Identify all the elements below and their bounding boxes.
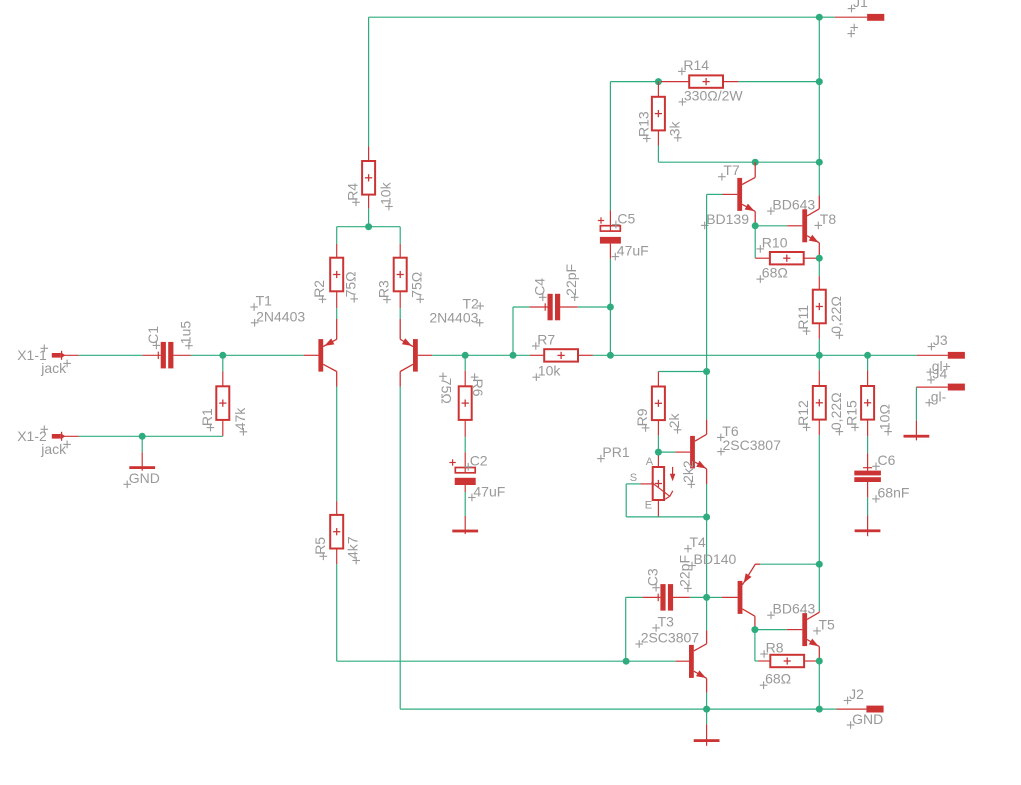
transistor T1 collector <box>323 364 337 371</box>
transistor T2 base pin <box>418 354 432 356</box>
resistor R15 <box>861 386 874 420</box>
svg-text:T5: T5 <box>819 616 836 632</box>
svg-text:C6: C6 <box>878 452 896 468</box>
label 0,22Ω (R11) <box>836 334 844 336</box>
capacitor C5 plus <box>598 220 604 222</box>
wire R9 top <box>658 371 706 373</box>
transistor T7 body <box>737 178 742 211</box>
svg-text:2k2: 2k2 <box>680 460 696 483</box>
label J1 origin marks <box>850 27 858 29</box>
resistor R6 <box>459 386 472 420</box>
wire column to T6 collector <box>706 372 708 420</box>
node right rail 162 <box>816 159 823 166</box>
wire T1c down to R5 <box>336 387 338 502</box>
resistor R4 <box>362 161 375 195</box>
wire V+ top rail <box>369 16 820 18</box>
label PR1 <box>597 458 605 460</box>
wire to GND1 <box>141 436 143 452</box>
wire T3 base <box>626 660 676 662</box>
label GND1 <box>123 483 131 485</box>
svg-text:R11: R11 <box>795 305 811 330</box>
label 3k (R13) <box>674 137 682 139</box>
node T7/T8/R10 <box>752 222 759 229</box>
svg-text:2N4403: 2N4403 <box>429 310 478 326</box>
transistor T3 base pin <box>676 660 689 662</box>
label R12 <box>803 426 811 428</box>
svg-text:10k: 10k <box>538 363 562 379</box>
wire V+ down to R4 <box>368 17 370 146</box>
svg-text:GND: GND <box>852 711 883 727</box>
label 2N4403 (T2) <box>476 322 484 324</box>
resistor R12 <box>813 386 826 420</box>
svg-text:22pF: 22pF <box>676 555 692 587</box>
node X1-2 gnd tap <box>139 433 146 440</box>
label 1u5 (C1) <box>185 345 193 347</box>
capacitor C2 plus <box>449 462 455 464</box>
svg-text:3k: 3k <box>666 121 682 137</box>
node input <box>219 352 226 359</box>
wire to R11 <box>818 258 820 276</box>
label J2 <box>844 700 852 702</box>
wire T2c down <box>399 387 401 710</box>
node T7 collector <box>752 159 759 166</box>
svg-text:C3: C3 <box>645 568 661 586</box>
label R10 <box>757 248 765 250</box>
svg-text:68Ω: 68Ω <box>762 265 788 281</box>
label 68Ω (R8) <box>760 684 768 686</box>
connector J3 pin <box>917 354 948 356</box>
transistor T7 emitter <box>742 204 755 211</box>
svg-text:C1: C1 <box>145 326 161 344</box>
wire T5 base <box>755 629 787 631</box>
svg-text:75Ω: 75Ω <box>409 272 425 298</box>
svg-text:jack: jack <box>40 360 67 376</box>
node T6e/PR1 <box>703 514 710 521</box>
svg-text:4k7: 4k7 <box>345 536 361 559</box>
wire R6 to C2 <box>464 437 466 452</box>
capacitor C6 plates <box>854 471 881 476</box>
transistor T7 collector <box>754 162 756 177</box>
wire C2 to gnd <box>464 492 466 516</box>
label 2k (R9) <box>674 429 682 431</box>
svg-text:T4: T4 <box>690 534 707 550</box>
label C5 <box>612 224 620 226</box>
connector X1-2 pin <box>52 434 61 439</box>
wire rail to R15 <box>867 355 869 370</box>
svg-text:47k: 47k <box>232 407 248 431</box>
transistor T4 body <box>738 581 743 614</box>
wire R11 to rail <box>818 339 820 355</box>
label C6 <box>872 465 880 467</box>
label R9 <box>642 427 650 429</box>
label R3 <box>383 299 391 301</box>
wire C1 to input node <box>191 354 223 356</box>
svg-text:330Ω/2W: 330Ω/2W <box>684 87 744 103</box>
transistor T5 emitter <box>807 640 819 647</box>
label GND (J2) <box>847 724 855 726</box>
wire R14 to right rail <box>739 81 820 83</box>
svg-text:GND: GND <box>129 470 160 486</box>
resistor R7 <box>544 349 578 361</box>
label R5 <box>320 555 328 557</box>
svg-text:C4: C4 <box>531 278 547 296</box>
wire R13 bottom <box>657 146 659 163</box>
label 10k (R7) <box>533 376 541 378</box>
label R8 <box>760 653 768 655</box>
capacitor C4 plates <box>548 294 553 321</box>
svg-text:E: E <box>645 500 652 512</box>
label 75Ω (R6) <box>439 375 447 377</box>
label T8 <box>815 224 823 226</box>
resistor R7 pins <box>530 354 545 356</box>
label BD643 (T8) <box>767 210 775 212</box>
label T5 <box>813 630 821 632</box>
svg-text:R8: R8 <box>766 640 784 656</box>
label R6 <box>471 376 479 378</box>
resistor R4 pins <box>368 147 370 162</box>
wire T8 base <box>755 225 787 227</box>
wire T4e to right rail <box>760 563 819 565</box>
resistor R13 <box>652 97 665 131</box>
transistor T3 emitter <box>694 671 707 678</box>
wire R8 node down <box>818 661 820 709</box>
transistor T4 emitter <box>742 565 755 585</box>
svg-text:10k: 10k <box>377 181 393 205</box>
transistor T1 emitter <box>336 319 338 339</box>
resistor R1 pins <box>222 372 224 387</box>
svg-text:2SC3807: 2SC3807 <box>723 437 782 453</box>
label 10Ω (R15) <box>884 431 892 433</box>
label BD140 <box>688 565 696 567</box>
wire T3 emitter to bottom rail <box>706 693 708 709</box>
node T4e/right rail <box>816 561 823 568</box>
label X1-2 <box>41 428 49 430</box>
wire J4 to gnd <box>915 387 917 421</box>
transistor T4 base pin <box>722 596 738 598</box>
resistor R14 <box>689 75 723 87</box>
svg-text:BD139: BD139 <box>706 211 749 227</box>
node rail C4 <box>510 352 517 359</box>
label R14 <box>678 70 686 72</box>
transistor T2 body <box>413 339 418 372</box>
label jack (X1-1) <box>63 362 71 364</box>
node rail C5 <box>607 352 614 359</box>
transistor T5 collector <box>818 564 820 611</box>
label 22pF (C4) <box>571 296 579 298</box>
label 2SC3807 (T6) <box>717 451 725 453</box>
capacitor C5 pins <box>609 211 611 232</box>
node C4/C5 <box>607 304 614 311</box>
resistor R10 pins <box>755 257 770 259</box>
svg-text:J3: J3 <box>933 332 948 348</box>
label R15 <box>851 426 859 428</box>
connector J4 pin <box>948 384 965 391</box>
transistor T5 base pin <box>787 629 803 631</box>
svg-text:R15: R15 <box>844 400 860 426</box>
ground GND1 <box>141 452 143 470</box>
svg-text:C5: C5 <box>617 211 635 227</box>
connector J2 pin <box>837 708 867 710</box>
svg-text:J2: J2 <box>849 686 864 702</box>
wire C5 top to R13/R14 node <box>609 82 611 211</box>
label C4 <box>539 296 547 298</box>
wire T7 base <box>707 193 723 195</box>
wire T7base column <box>706 194 708 371</box>
label 4k7 (R5) <box>352 560 360 562</box>
label 10k (R4) <box>385 206 393 208</box>
wire C3 left corner <box>626 596 643 598</box>
node J1 junction <box>816 14 823 21</box>
wire R12 down to T4e node <box>818 435 820 564</box>
wire R2 to T1 emitter <box>336 308 338 319</box>
transistor T1 base pin <box>304 354 319 356</box>
label T2 <box>476 305 484 307</box>
ground GND-bottom <box>706 724 708 746</box>
label C3 <box>652 587 660 589</box>
node R8/T5e <box>816 658 823 665</box>
wire bottom gnd <box>706 709 708 724</box>
label 330Ω/2W (R14) <box>679 101 687 103</box>
node rail R11 <box>816 352 823 359</box>
transistor T6 body <box>690 436 695 469</box>
svg-text:R3: R3 <box>376 280 392 298</box>
label gl- <box>925 402 933 404</box>
label J3 <box>928 346 936 348</box>
node R9 top <box>703 368 710 375</box>
label 47uF (C2) <box>468 497 476 499</box>
wire X1-1 to C1 <box>79 354 143 356</box>
svg-text:R4: R4 <box>345 183 361 201</box>
label R1 <box>207 427 215 429</box>
svg-text:0,22Ω: 0,22Ω <box>828 392 844 430</box>
capacitor C2 pins <box>464 452 466 473</box>
label R2 <box>319 298 327 300</box>
node T3 base/C3 <box>623 658 630 665</box>
wire input node to T1 base <box>223 354 304 356</box>
svg-text:BD643: BD643 <box>773 601 816 617</box>
connector J1 pin <box>819 16 835 18</box>
svg-text:68nF: 68nF <box>878 485 910 501</box>
ground GND-C2 <box>464 516 466 534</box>
label T7 <box>718 176 726 178</box>
transistor T2 collector <box>400 364 413 371</box>
svg-text:22pF: 22pF <box>563 264 579 296</box>
trimmer PR1 box <box>653 467 664 500</box>
wire C5 node to rail <box>609 307 611 355</box>
node R13/R14 <box>655 78 662 85</box>
svg-text:T8: T8 <box>820 211 837 227</box>
wire R15 to C6 <box>867 436 869 453</box>
wire R1 to X1-2 net <box>222 435 224 437</box>
label BD139 <box>701 224 709 226</box>
transistor T8 emitter <box>807 236 819 243</box>
capacitor C1 pins <box>143 354 161 356</box>
svg-text:gl-: gl- <box>931 389 947 405</box>
svg-text:R5: R5 <box>312 537 328 555</box>
label 75Ω (R2) <box>350 298 358 300</box>
svg-text:2SC3807: 2SC3807 <box>641 630 700 646</box>
svg-text:75Ω: 75Ω <box>439 378 455 404</box>
label R7 <box>532 345 540 347</box>
transistor T3 collector <box>706 597 708 630</box>
transistor T5 body <box>802 613 807 646</box>
svg-text:R13: R13 <box>635 111 651 137</box>
wire T5b down <box>754 630 756 661</box>
svg-text:J4: J4 <box>933 366 948 382</box>
label 22pF (C3) <box>684 587 692 589</box>
capacitor C1 plates <box>161 342 166 369</box>
label BD643 (T5) <box>767 614 775 616</box>
svg-text:R7: R7 <box>537 332 555 348</box>
wire C4 to C5 node <box>578 306 611 308</box>
wire C3 right <box>690 596 707 598</box>
wire PR1 A <box>657 452 659 455</box>
wire C6 to gnd <box>867 498 869 516</box>
label 68nF (C6) <box>872 498 880 500</box>
svg-text:T3: T3 <box>658 613 675 629</box>
transistor T7 base pin <box>723 193 738 195</box>
wire bottom rail <box>400 708 706 710</box>
resistor R6 pins <box>464 371 466 387</box>
wire right vertical top <box>818 17 820 81</box>
resistor R12 pins <box>818 371 820 387</box>
svg-text:R14: R14 <box>683 57 709 73</box>
resistor R15 pins <box>867 371 869 387</box>
node below R4 <box>365 223 372 230</box>
node rail R6 <box>462 352 469 359</box>
wire T6e node to C3 node <box>706 517 708 597</box>
svg-text:R9: R9 <box>634 408 650 426</box>
svg-text:jack: jack <box>40 441 67 457</box>
label C1 <box>153 344 161 346</box>
trimmer PR1 pin S <box>641 483 653 485</box>
transistor T2 emitter <box>399 319 401 339</box>
connector X1-1 pin <box>52 353 61 358</box>
resistor R8 pins <box>758 660 771 662</box>
wire T6 base <box>658 451 675 453</box>
trimmer PR1 adjust arrow <box>672 467 674 478</box>
capacitor C6 pins <box>867 453 869 470</box>
ground GND-C6 <box>867 516 869 537</box>
resistor R10 <box>770 252 804 264</box>
wire rail to R6 <box>464 355 466 370</box>
svg-text:R2: R2 <box>311 280 327 298</box>
wire T7e to R10 <box>754 226 756 258</box>
node bottom R8 <box>816 706 823 713</box>
label jack (X1-2) <box>63 443 71 445</box>
wire PR1 S net <box>626 483 640 485</box>
label 2N4403 (T1) <box>251 322 259 324</box>
wire main rail right <box>593 354 917 356</box>
label 0,22Ω (R12) <box>836 431 844 433</box>
svg-text:PR1: PR1 <box>602 444 629 460</box>
resistor R9 <box>652 387 665 421</box>
resistor R3 <box>394 258 407 292</box>
label T6 <box>717 436 725 438</box>
wire rail to C4 <box>512 307 514 355</box>
svg-text:T1: T1 <box>256 293 273 309</box>
transistor T6 emitter <box>695 462 707 469</box>
label 47uF (C5) <box>612 256 620 258</box>
resistor R9 pins <box>657 372 659 387</box>
capacitor C3 plates <box>660 584 665 611</box>
resistor R11 pins <box>818 276 820 290</box>
svg-text:1u5: 1u5 <box>177 321 193 345</box>
node R9/T6b/PR1 <box>655 449 662 456</box>
resistor R8 <box>770 655 804 667</box>
trimmer PR1 pin A <box>657 456 659 468</box>
svg-text:47uF: 47uF <box>473 483 505 499</box>
resistor R13 pins <box>657 82 659 97</box>
svg-text:R12: R12 <box>795 400 811 426</box>
transistor T8 base pin <box>787 225 802 227</box>
svg-text:J1: J1 <box>853 0 868 10</box>
ground GND-J4 <box>915 421 917 441</box>
label 2k2 (PR1) <box>688 483 696 485</box>
svg-text:R6: R6 <box>470 379 486 397</box>
capacitor C2 plates <box>455 468 475 473</box>
resistor R1 <box>216 386 229 420</box>
label 68Ω (R10) <box>757 278 765 280</box>
node bottom T3e <box>703 706 710 713</box>
wire R9 bottom <box>657 436 659 452</box>
label R4 <box>352 201 360 203</box>
svg-text:BD140: BD140 <box>694 551 737 567</box>
wire T4 base <box>707 596 722 598</box>
svg-text:75Ω: 75Ω <box>343 271 359 297</box>
label T1 <box>250 306 258 308</box>
svg-text:0,22Ω: 0,22Ω <box>828 296 844 334</box>
svg-text:BD643: BD643 <box>772 197 815 213</box>
wire R3 to T2 emitter <box>399 308 401 319</box>
label 47k (R1) <box>240 431 248 433</box>
label J4 <box>927 379 935 381</box>
wire rail to R12 <box>818 355 820 370</box>
svg-text:C2: C2 <box>470 453 488 469</box>
svg-text:A: A <box>646 456 654 468</box>
capacitor C3 pins <box>643 596 661 598</box>
resistor R14 pins <box>661 81 689 83</box>
svg-text:68Ω: 68Ω <box>765 671 791 687</box>
svg-text:10Ω: 10Ω <box>877 404 893 430</box>
svg-text:R1: R1 <box>199 408 215 426</box>
label 2SC3807 (T3) <box>635 643 643 645</box>
svg-text:S: S <box>630 472 637 484</box>
wire diff-pair top <box>337 226 401 228</box>
label R11 <box>803 330 811 332</box>
transistor T4 collector <box>742 609 755 616</box>
label 75Ω (R3) <box>416 298 424 300</box>
label J1 <box>848 8 856 10</box>
resistor R3 pins <box>399 244 401 258</box>
label gl+ <box>926 371 934 373</box>
wire T6 emitter down <box>706 484 708 517</box>
label C2 <box>464 466 472 468</box>
transistor T6 collector <box>706 420 708 435</box>
resistor R5 <box>330 515 343 549</box>
label X1-1 <box>41 347 49 349</box>
wire C5 up <box>609 259 611 307</box>
svg-text:47uF: 47uF <box>617 242 649 258</box>
svg-text:2N4403: 2N4403 <box>256 308 305 324</box>
resistor R2 <box>330 258 343 292</box>
transistor T8 collector <box>818 162 820 195</box>
svg-text:T7: T7 <box>723 162 740 178</box>
transistor T8 body <box>802 209 807 242</box>
trimmer PR1 wiper <box>652 482 670 496</box>
node R14/right <box>816 78 823 85</box>
transistor T1 body <box>318 339 323 372</box>
